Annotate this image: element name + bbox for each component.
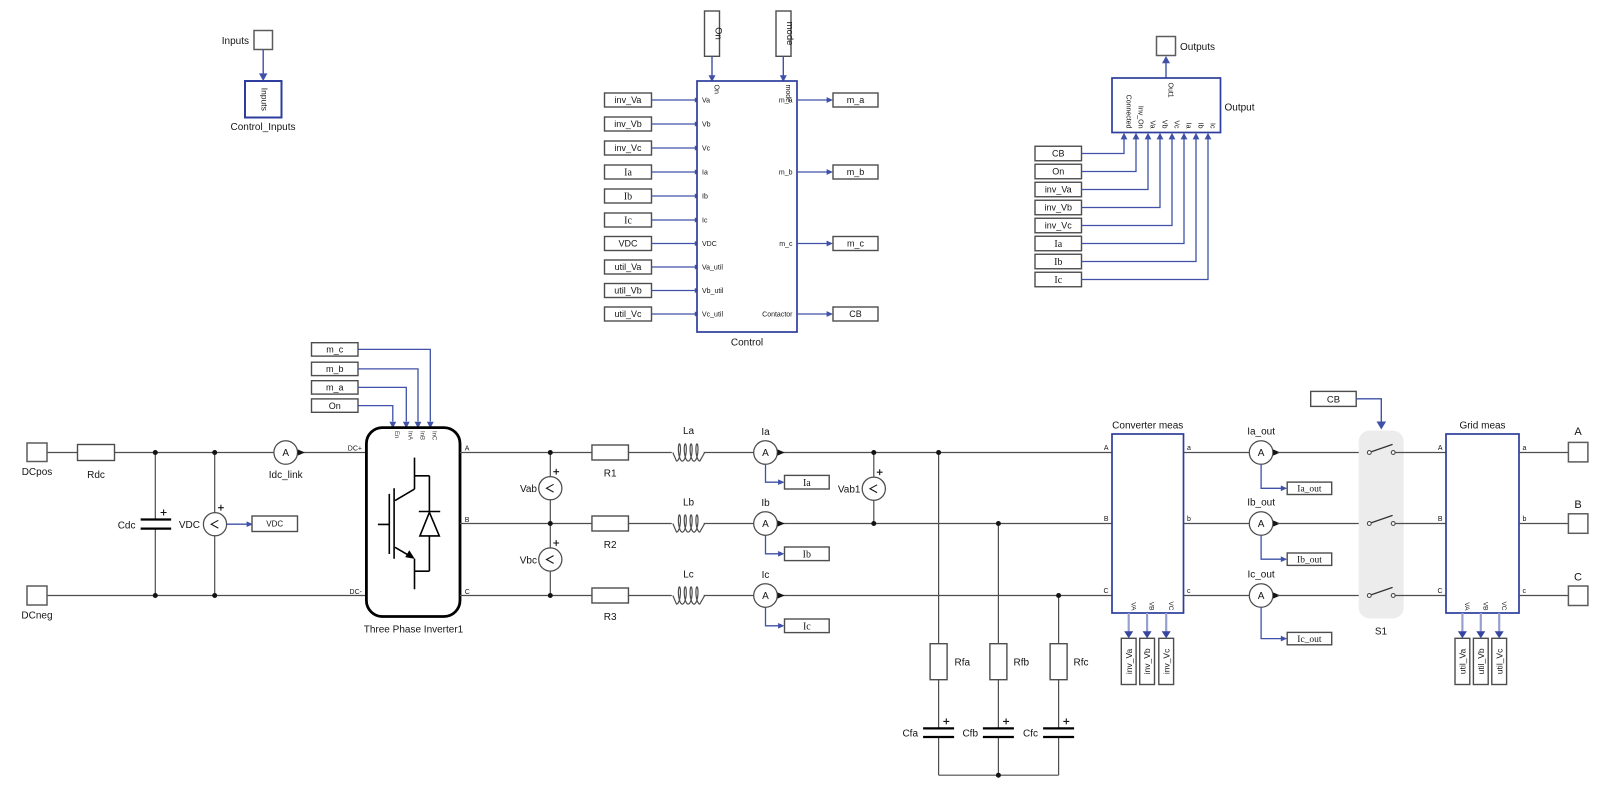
capacitor Cfa — [902, 718, 954, 739]
wire VDC branch — [214, 453, 216, 596]
tag Ia_out (goto) — [1287, 482, 1332, 495]
wire Ib to tag — [766, 535, 785, 557]
wire Converter meas to Ia_out — [1184, 452, 1250, 454]
wire Ia_out to tag — [1261, 464, 1287, 491]
svg-text:Cdc: Cdc — [118, 521, 136, 532]
svg-text:Ib: Ib — [624, 192, 632, 203]
capacitor Cfc — [1023, 718, 1074, 739]
label Output — [1225, 103, 1255, 114]
svg-text:Vbc: Vbc — [520, 555, 537, 566]
svg-text:VA: VA — [1129, 602, 1136, 611]
tag util_Vc (measurement goto) — [1492, 638, 1507, 684]
svg-text:DC-: DC- — [350, 589, 363, 596]
wire inv_Va to Output pin Va — [1082, 133, 1152, 190]
junction phase C Vbc — [548, 593, 553, 598]
svg-text:b: b — [1187, 516, 1191, 523]
wire Rfb branch — [997, 524, 999, 776]
tag inv_Va (input to Output Va) — [1035, 182, 1082, 197]
wire Grid meas to port A — [1519, 452, 1568, 454]
voltmeter VDC — [179, 505, 227, 536]
tag inv_Vc (measurement goto) — [1159, 638, 1174, 684]
tag Ic_out (goto) — [1287, 632, 1332, 645]
svg-text:A: A — [1104, 445, 1109, 452]
tag inv_Vb (input to Output Vb) — [1035, 200, 1082, 215]
wire On to Control — [709, 56, 716, 82]
tag VDC (input to Control VDC) — [605, 237, 652, 251]
capacitor Cfb — [962, 718, 1013, 739]
svg-text:DCneg: DCneg — [21, 611, 52, 622]
wire capacitor common — [939, 774, 1059, 776]
svg-text:Va: Va — [1149, 120, 1156, 128]
svg-text:Rdc: Rdc — [87, 470, 105, 481]
tag Ic (input to Output Ic) — [1035, 272, 1082, 287]
junction phase A Rfa — [936, 450, 941, 455]
tag inv_Va (measurement goto) — [1121, 638, 1136, 684]
tag m_c (output of Control) — [833, 237, 878, 251]
svg-text:Vb: Vb — [1161, 120, 1168, 129]
wire Vbc branch — [549, 524, 551, 596]
junction DC- VDC — [212, 593, 217, 598]
svg-text:c: c — [1187, 588, 1191, 595]
svg-text:Ia: Ia — [1185, 123, 1192, 129]
svg-text:Ia_out: Ia_out — [1247, 427, 1275, 438]
svg-text:En: En — [393, 431, 399, 438]
tag VDC (goto) — [252, 516, 298, 532]
wire phase B — [460, 523, 1112, 525]
svg-text:m_b: m_b — [779, 170, 793, 177]
tag inv_Vc (input to Output Vc) — [1035, 218, 1082, 233]
svg-text:Idc_link: Idc_link — [269, 470, 304, 481]
wire m_a to inverter pin — [358, 387, 410, 428]
tag Ib (goto) — [785, 547, 830, 561]
svg-text:InB: InB — [418, 431, 424, 440]
capacitor Cdc — [118, 510, 171, 532]
igbt inside inverter — [378, 458, 430, 590]
wire Control pin Contactor to tag CB — [797, 311, 833, 317]
tag inv_Vb (input to Control Vb) — [605, 117, 652, 131]
voltmeter Vab1 — [838, 469, 886, 500]
svg-text:S1: S1 — [1375, 627, 1388, 638]
svg-text:A: A — [1438, 445, 1443, 452]
svg-text:VA: VA — [1463, 602, 1470, 611]
svg-text:inv_Vc: inv_Vc — [1045, 221, 1073, 231]
svg-text:Ia: Ia — [761, 427, 770, 438]
wire inv_Va to Control pin Va — [652, 98, 701, 103]
wire Control pin m_c to tag m_c — [797, 241, 833, 247]
svg-text:Cfa: Cfa — [902, 729, 918, 740]
svg-text:util_Va: util_Va — [1457, 648, 1467, 674]
svg-text:Ib_out: Ib_out — [1297, 556, 1322, 566]
wire Cdc branch — [154, 453, 156, 596]
port Outputs — [1157, 37, 1216, 56]
tag On (input to Control) — [705, 11, 724, 56]
svg-text:B: B — [1438, 516, 1443, 523]
svg-text:Ia: Ia — [1054, 239, 1062, 250]
wire Ib to Control pin Ib — [652, 194, 701, 199]
svg-text:InC: InC — [431, 431, 437, 441]
svg-text:Rfa: Rfa — [955, 658, 971, 669]
subsystem Converter meas — [1103, 421, 1191, 614]
svg-text:C: C — [1574, 572, 1582, 584]
wire Vab branch — [549, 453, 551, 524]
svg-text:m_a: m_a — [326, 383, 344, 393]
svg-text:m_c: m_c — [847, 239, 865, 249]
wire inv_Vb to Output pin Vb — [1082, 133, 1164, 208]
port B — [1568, 499, 1588, 533]
wire Vab1 branch — [873, 453, 875, 524]
svg-text:C: C — [1437, 588, 1442, 595]
tag CB (breaker command) — [1311, 391, 1357, 406]
tag m_a (output of Control) — [833, 93, 878, 107]
svg-text:Ia: Ia — [702, 170, 708, 177]
svg-text:CB: CB — [1327, 394, 1340, 405]
label Three Phase Inverter1 — [364, 625, 464, 636]
tag util_Va (input to Control Va_util) — [605, 260, 652, 274]
tag util_Vb (measurement goto) — [1473, 638, 1488, 684]
svg-text:A: A — [1574, 426, 1582, 438]
resistor Rfb — [990, 644, 1030, 680]
wire Converter meas to Ib_out — [1184, 523, 1250, 525]
wire Converter meas to tag inv_Vb — [1143, 613, 1152, 638]
svg-text:util_Vc: util_Vc — [614, 309, 642, 319]
tag CB (input to Output Connected) — [1035, 146, 1082, 161]
svg-text:inv_Vb: inv_Vb — [1044, 203, 1072, 213]
svg-text:a: a — [1523, 445, 1527, 452]
junction DC- Cdc — [153, 593, 158, 598]
wire m_b to inverter pin — [358, 369, 421, 429]
tag m_a (gate signal) — [312, 381, 359, 394]
svg-text:Ib: Ib — [761, 498, 770, 509]
junction phase C Rfc — [1056, 593, 1061, 598]
svg-text:m_b: m_b — [847, 167, 865, 177]
wire Grid meas to port B — [1519, 523, 1568, 525]
wire Ib to Output pin Ib — [1082, 133, 1200, 262]
inductor Lc — [673, 570, 705, 605]
svg-text:Ia: Ia — [624, 168, 632, 179]
junction DC+ Cdc — [153, 450, 158, 455]
svg-text:inv_Vb: inv_Vb — [1142, 648, 1152, 674]
svg-text:R1: R1 — [604, 469, 617, 480]
junction phase A Vab1 — [871, 450, 876, 455]
tag Ia (input to Control Ia) — [605, 165, 652, 179]
tag Ib_out (goto) — [1287, 553, 1332, 566]
subsystem Three Phase Inverter1 — [366, 428, 460, 617]
svg-text:Va: Va — [702, 98, 710, 105]
label Control_Inputs — [230, 122, 295, 133]
svg-text:mode: mode — [784, 22, 795, 46]
svg-text:VB: VB — [1481, 602, 1488, 611]
wire Grid meas to tag util_Vb — [1476, 613, 1485, 638]
wire CB to Output pin Connected — [1082, 133, 1128, 154]
tag inv_Vb (measurement goto) — [1140, 638, 1155, 684]
wire CB to S1 — [1356, 399, 1386, 430]
svg-text:util_Va: util_Va — [615, 262, 642, 272]
svg-text:Ib_out: Ib_out — [1247, 498, 1275, 509]
ammeter Ic — [754, 570, 785, 607]
wire Ia to tag — [766, 464, 785, 485]
wire DC- rail — [47, 595, 366, 597]
svg-text:a: a — [1187, 445, 1191, 452]
wire Ia_out to S1 — [1277, 452, 1367, 454]
resistor R3 — [592, 588, 629, 623]
wire Ia to Control pin Ia — [652, 170, 701, 175]
svg-text:Connected: Connected — [1125, 95, 1132, 129]
svg-text:c: c — [1523, 588, 1527, 595]
tag util_Vb (input to Control Vb_util) — [605, 284, 652, 298]
voltmeter Vbc — [520, 540, 562, 571]
voltmeter Vab — [520, 469, 562, 500]
svg-text:R3: R3 — [604, 612, 617, 623]
wire Grid meas to tag util_Va — [1458, 613, 1467, 638]
svg-text:Inv_On: Inv_On — [1137, 106, 1144, 129]
svg-text:A: A — [465, 446, 470, 453]
wire util_Vb to Control pin Vb_util — [652, 288, 701, 293]
svg-text:Three Phase Inverter1: Three Phase Inverter1 — [364, 625, 464, 636]
svg-text:VDC: VDC — [179, 520, 200, 531]
subsystem Control_Inputs — [245, 81, 282, 118]
tag m_b (gate signal) — [312, 362, 359, 375]
svg-text:Ic_out: Ic_out — [1247, 570, 1274, 581]
svg-text:VDC: VDC — [702, 241, 717, 248]
svg-text:A: A — [282, 448, 289, 459]
tag On (gate signal) — [312, 399, 359, 412]
svg-text:m_c: m_c — [326, 345, 344, 355]
port C — [1568, 572, 1588, 606]
svg-text:Rfb: Rfb — [1014, 658, 1030, 669]
svg-text:Cfc: Cfc — [1023, 729, 1038, 740]
wire Converter meas to Ic_out — [1184, 595, 1250, 597]
resistor R1 — [592, 445, 629, 480]
svg-text:inv_Vb: inv_Vb — [614, 119, 642, 129]
svg-text:Ib: Ib — [1054, 257, 1062, 268]
svg-text:Ia_out: Ia_out — [1297, 485, 1322, 495]
svg-text:VDC: VDC — [618, 239, 638, 249]
tag On (input to Output Inv_On) — [1035, 164, 1082, 179]
svg-text:Grid meas: Grid meas — [1459, 421, 1505, 432]
svg-text:Ic_out: Ic_out — [1297, 635, 1322, 645]
wire Control pin m_b to tag m_b — [797, 169, 833, 175]
svg-text:Lc: Lc — [683, 570, 694, 581]
svg-text:Inputs: Inputs — [222, 36, 249, 47]
svg-text:DC+: DC+ — [348, 446, 362, 453]
subsystem Control — [697, 81, 797, 332]
resistor Rfa — [930, 644, 970, 680]
wire Grid meas to port C — [1519, 595, 1568, 597]
svg-text:Ic: Ic — [624, 216, 632, 227]
wire Rfc branch — [1058, 596, 1060, 776]
resistor R2 — [592, 516, 629, 551]
svg-text:m_c: m_c — [779, 241, 793, 248]
junction phase A Vab — [548, 450, 553, 455]
svg-text:Cfb: Cfb — [962, 729, 978, 740]
svg-text:Vb: Vb — [702, 122, 711, 129]
wire mode to Control — [780, 56, 787, 82]
wire phase C — [460, 595, 1112, 597]
svg-text:Lb: Lb — [683, 498, 695, 509]
pin label DC+ — [348, 446, 362, 453]
tag m_c (gate signal) — [312, 343, 359, 356]
svg-text:CB: CB — [849, 309, 862, 319]
resistor Rfc — [1050, 644, 1088, 680]
tag Ic (goto) — [785, 619, 830, 633]
svg-text:Ic: Ic — [762, 570, 770, 581]
svg-text:VC: VC — [1167, 601, 1174, 610]
wire Ic_out to tag — [1261, 607, 1287, 641]
svg-text:Ic: Ic — [1054, 275, 1062, 286]
wire m_c to inverter pin — [358, 349, 434, 428]
tag util_Vc (input to Control Vc_util) — [605, 307, 652, 321]
wire util_Vc to Control pin Vc_util — [652, 312, 701, 317]
svg-text:CB: CB — [1052, 149, 1065, 159]
ammeter Ib_out — [1247, 498, 1280, 536]
wire Inputs to Control_Inputs — [259, 50, 267, 82]
ammeter Ia — [754, 427, 785, 464]
svg-text:A: A — [1258, 448, 1265, 459]
ammeter Ic_out — [1247, 570, 1280, 608]
svg-text:Vc: Vc — [1173, 120, 1180, 129]
svg-text:Ic: Ic — [803, 621, 811, 632]
wire S1 to Grid meas B — [1395, 523, 1446, 525]
svg-text:On: On — [713, 85, 720, 94]
svg-text:VDC: VDC — [266, 520, 283, 529]
wire inv_Vc to Control pin Vc — [652, 146, 701, 151]
svg-text:Ia: Ia — [803, 478, 811, 489]
pin label DC- — [350, 589, 363, 596]
inductor Lb — [673, 498, 705, 533]
svg-text:inv_Vc: inv_Vc — [614, 143, 642, 153]
svg-text:util_Vc: util_Vc — [1494, 648, 1504, 674]
wire Converter meas to tag inv_Vc — [1162, 613, 1171, 638]
ammeter Idc_link — [269, 441, 305, 481]
tag util_Va (measurement goto) — [1455, 638, 1470, 684]
wire Converter meas to tag inv_Va — [1124, 613, 1133, 638]
svg-text:A: A — [762, 448, 769, 459]
svg-text:La: La — [683, 426, 695, 437]
wire inv_Vb to Control pin Vb — [652, 122, 701, 127]
svg-text:Vc_util: Vc_util — [702, 312, 723, 319]
pin label A — [465, 446, 470, 453]
wire Control pin m_a to tag m_a — [797, 97, 833, 103]
junction DC+ VDC — [212, 450, 217, 455]
svg-text:mode: mode — [784, 85, 791, 103]
svg-text:A: A — [1258, 519, 1265, 530]
svg-text:DCpos: DCpos — [22, 467, 53, 478]
svg-text:B: B — [1104, 516, 1109, 523]
wire Ia to Output pin Ia — [1082, 133, 1188, 244]
svg-text:Vb_util: Vb_util — [702, 288, 724, 295]
svg-text:InA: InA — [407, 431, 413, 440]
port DCneg — [21, 586, 52, 622]
svg-text:VC: VC — [1500, 601, 1507, 610]
switch S1 — [1359, 431, 1404, 638]
wire Grid meas to tag util_Vc — [1495, 613, 1504, 638]
tag mode (input to Control) — [776, 11, 795, 56]
subsystem Grid meas — [1437, 421, 1526, 614]
svg-text:Vab1: Vab1 — [838, 485, 861, 496]
svg-text:A: A — [762, 591, 769, 602]
wire Ic to Output pin Ic — [1082, 133, 1212, 280]
wire Output Out1 to Outputs — [1162, 56, 1170, 78]
wire Ic_out to S1 — [1277, 595, 1367, 597]
svg-text:util_Vb: util_Vb — [614, 286, 642, 296]
svg-text:Vc: Vc — [702, 146, 711, 153]
inductor La — [673, 426, 705, 461]
svg-text:inv_Va: inv_Va — [615, 95, 642, 105]
svg-text:util_Vb: util_Vb — [1476, 648, 1486, 674]
svg-text:inv_Vc: inv_Vc — [1161, 648, 1171, 674]
svg-text:Out1: Out1 — [1167, 83, 1174, 98]
tag inv_Va (input to Control Va) — [605, 93, 652, 107]
svg-text:b: b — [1523, 516, 1527, 523]
svg-text:Outputs: Outputs — [1180, 42, 1215, 53]
junction phase B Vab — [548, 521, 553, 526]
wire On to inverter pin — [358, 406, 396, 429]
tag Ib (input to Control Ib) — [605, 189, 652, 203]
wire On to Output pin Inv_On — [1082, 133, 1140, 172]
svg-text:Inputs: Inputs — [260, 88, 270, 111]
tag Ic (input to Control Ic) — [605, 213, 652, 227]
svg-text:VB: VB — [1148, 602, 1155, 611]
svg-text:Vab: Vab — [520, 484, 537, 495]
wire DC+ rail — [47, 452, 366, 454]
subsystem Output — [1112, 78, 1221, 133]
port Inputs — [222, 31, 273, 50]
svg-text:On: On — [329, 401, 341, 411]
svg-text:Control: Control — [731, 338, 763, 349]
wire VDC to Control pin VDC — [652, 241, 701, 246]
diode inside inverter — [419, 512, 440, 536]
svg-text:A: A — [1258, 591, 1265, 602]
tag Ia (goto) — [785, 475, 830, 489]
pin label B — [465, 517, 470, 524]
tag Ib (input to Output Ib) — [1035, 254, 1082, 269]
svg-text:R2: R2 — [604, 540, 617, 551]
resistor Rdc — [78, 445, 115, 482]
svg-text:Ib: Ib — [803, 549, 811, 560]
wire phase A — [460, 452, 1112, 454]
svg-text:Ib: Ib — [702, 194, 708, 201]
svg-text:Ic: Ic — [702, 218, 708, 225]
tag inv_Vc (input to Control Vc) — [605, 141, 652, 155]
svg-text:Contactor: Contactor — [762, 312, 793, 319]
label Control — [731, 338, 763, 349]
tag m_b (output of Control) — [833, 165, 878, 179]
svg-text:On: On — [1052, 167, 1064, 177]
junction phase B Rfb — [996, 521, 1001, 526]
svg-text:inv_Va: inv_Va — [1124, 648, 1134, 674]
svg-text:On: On — [712, 27, 723, 40]
svg-text:A: A — [762, 519, 769, 530]
svg-text:Va_util: Va_util — [702, 265, 723, 272]
pin label C — [465, 589, 470, 596]
port A — [1568, 426, 1588, 462]
wire S1 to Grid meas A — [1395, 452, 1446, 454]
ammeter Ia_out — [1247, 427, 1280, 465]
svg-text:Ic: Ic — [1209, 123, 1216, 129]
port DCpos — [22, 443, 53, 478]
ammeter Ib — [754, 498, 785, 535]
svg-text:m_a: m_a — [847, 95, 865, 105]
svg-text:Ib: Ib — [1197, 123, 1204, 129]
svg-text:Converter meas: Converter meas — [1112, 421, 1183, 432]
wire util_Va to Control pin Va_util — [652, 265, 701, 270]
wire S1 to Grid meas C — [1395, 595, 1446, 597]
wire Ib_out to tag — [1261, 535, 1287, 562]
wire inv_Vc to Output pin Vc — [1082, 133, 1176, 226]
tag CB (output of Control) — [833, 307, 878, 321]
svg-text:Output: Output — [1225, 103, 1255, 114]
svg-text:Control_Inputs: Control_Inputs — [230, 122, 295, 133]
